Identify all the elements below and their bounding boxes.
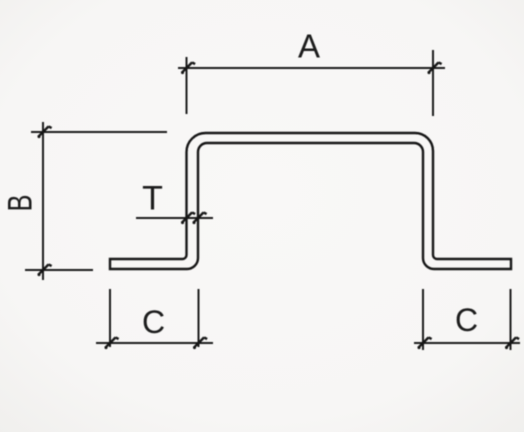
svg-text:B: B: [2, 195, 40, 212]
svg-text:A: A: [298, 28, 320, 65]
svg-text:T: T: [142, 180, 163, 218]
svg-text:C: C: [455, 302, 478, 338]
svg-text:C: C: [142, 304, 165, 340]
